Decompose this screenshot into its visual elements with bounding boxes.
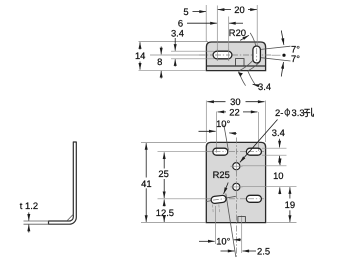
svg-text:20: 20 xyxy=(234,4,244,15)
hidden tab (top view) xyxy=(236,59,245,66)
svg-text:41: 41 xyxy=(141,178,151,189)
horizontal slot (top view) xyxy=(213,51,232,59)
R20 swing arc xyxy=(250,33,256,47)
svg-text:R25: R25 xyxy=(213,169,230,180)
svg-text:2.5: 2.5 xyxy=(257,245,270,256)
svg-text:10°: 10° xyxy=(216,236,230,247)
svg-text:10: 10 xyxy=(273,170,283,181)
small swing arrowhead xyxy=(238,72,243,77)
extension line: slot left arc center xyxy=(216,6,218,62)
tilted 10deg line (top) xyxy=(224,125,229,151)
extension: plate right xyxy=(265,101,267,143)
svg-text:R20: R20 xyxy=(229,27,246,38)
svg-text:25: 25 xyxy=(158,168,168,179)
extension line: center to left for dim 8 xyxy=(150,54,206,56)
arc slot leg edge left xyxy=(239,71,246,86)
front view plate xyxy=(206,142,265,222)
svg-text:7°: 7° xyxy=(291,53,300,64)
L profile xyxy=(49,142,77,224)
bottom-right slot xyxy=(246,195,261,202)
extension: plate bottom left xyxy=(141,222,206,224)
svg-text:3.4: 3.4 xyxy=(272,127,285,138)
extension: plate bottom right xyxy=(266,222,297,224)
svg-text:3.4: 3.4 xyxy=(171,27,184,38)
7 deg lower arrow xyxy=(281,62,283,76)
R20 leader arrow xyxy=(240,35,249,40)
ext overlay crossing slot xyxy=(216,149,218,153)
dim 25 xyxy=(163,152,165,168)
hole 2 xyxy=(233,183,240,190)
hole 1 xyxy=(233,163,240,170)
extension line: slot right arc center xyxy=(228,17,230,62)
top view plate body xyxy=(206,42,265,71)
dim 41 xyxy=(145,143,147,177)
center dot xyxy=(282,54,285,57)
extension: right slot right arc center xyxy=(257,112,259,149)
svg-text:2-: 2- xyxy=(275,107,283,118)
svg-text:t 1.2: t 1.2 xyxy=(20,200,38,211)
svg-text:3.4: 3.4 xyxy=(258,81,271,92)
7 degree upper line xyxy=(261,46,291,49)
tilted axis of bottom-left slot xyxy=(206,196,236,201)
slot arc-center dashes below xyxy=(212,205,215,213)
extension line: plate left edge xyxy=(205,5,207,42)
arc slot center dash xyxy=(256,48,258,61)
extension line: plate bottom to left xyxy=(139,69,207,71)
extension: left slot left arc center xyxy=(216,112,218,153)
bend edge line xyxy=(206,65,265,67)
extension: bottom-left slot arc center (bottom) xyxy=(214,206,216,244)
extension: tab center xyxy=(241,216,243,254)
extension: plate top left xyxy=(141,141,206,143)
thickness extension lines xyxy=(24,220,50,222)
svg-text:10°: 10° xyxy=(216,118,230,129)
extension: right slot top/bottom xyxy=(262,147,287,149)
svg-text:14: 14 xyxy=(135,50,145,61)
leader to hole xyxy=(240,120,278,163)
arc slot (top view, vertical) xyxy=(253,46,261,63)
hidden tab (front view) xyxy=(238,217,246,223)
svg-text:19: 19 xyxy=(285,199,295,210)
dim 10 xyxy=(279,159,281,166)
extension: hole2 xyxy=(242,186,297,188)
CJK glyph kong (hole) xyxy=(304,108,314,117)
extension line: arc slot center xyxy=(256,5,258,47)
dim 12.5 xyxy=(163,200,165,207)
bottom-left slot (tilted 10deg) xyxy=(211,195,227,204)
extension line: plate top to left for dim 14 xyxy=(139,41,209,43)
ext overlays crossing slot xyxy=(216,49,218,61)
7 degree lower line xyxy=(261,58,291,61)
arc slot bend connector right xyxy=(248,62,260,71)
tilted 10deg line (bottom) xyxy=(226,194,236,258)
arc slot bend connector left xyxy=(239,61,253,71)
thickness arrows xyxy=(28,212,30,220)
slot center dash xyxy=(215,54,230,56)
R25 leader xyxy=(224,183,229,194)
bend chord line xyxy=(67,214,73,220)
svg-text:5: 5 xyxy=(183,6,188,17)
top-right slot xyxy=(246,148,261,155)
arc slot leg edge right xyxy=(248,71,256,85)
top row center line xyxy=(158,151,211,153)
dim 2.5 xyxy=(221,250,235,252)
vertical center line xyxy=(235,138,237,258)
extension: plate left xyxy=(205,101,207,143)
svg-text:30: 30 xyxy=(230,96,240,107)
slot center dashes xyxy=(215,151,227,153)
extension: hole1 xyxy=(242,165,287,167)
dim 19 xyxy=(289,187,291,198)
7 deg upper arrow xyxy=(281,31,284,45)
svg-text:12.5: 12.5 xyxy=(156,207,174,218)
svg-text:3.3: 3.3 xyxy=(292,107,305,118)
horizontal center line of top view xyxy=(199,54,271,56)
svg-text:22: 22 xyxy=(229,106,239,117)
svg-text:8: 8 xyxy=(157,56,162,67)
bottom row center line xyxy=(158,198,210,200)
top-left slot xyxy=(213,148,228,155)
center dash to dot xyxy=(272,54,281,56)
extension lines: slot top/bottom to left xyxy=(171,50,214,52)
